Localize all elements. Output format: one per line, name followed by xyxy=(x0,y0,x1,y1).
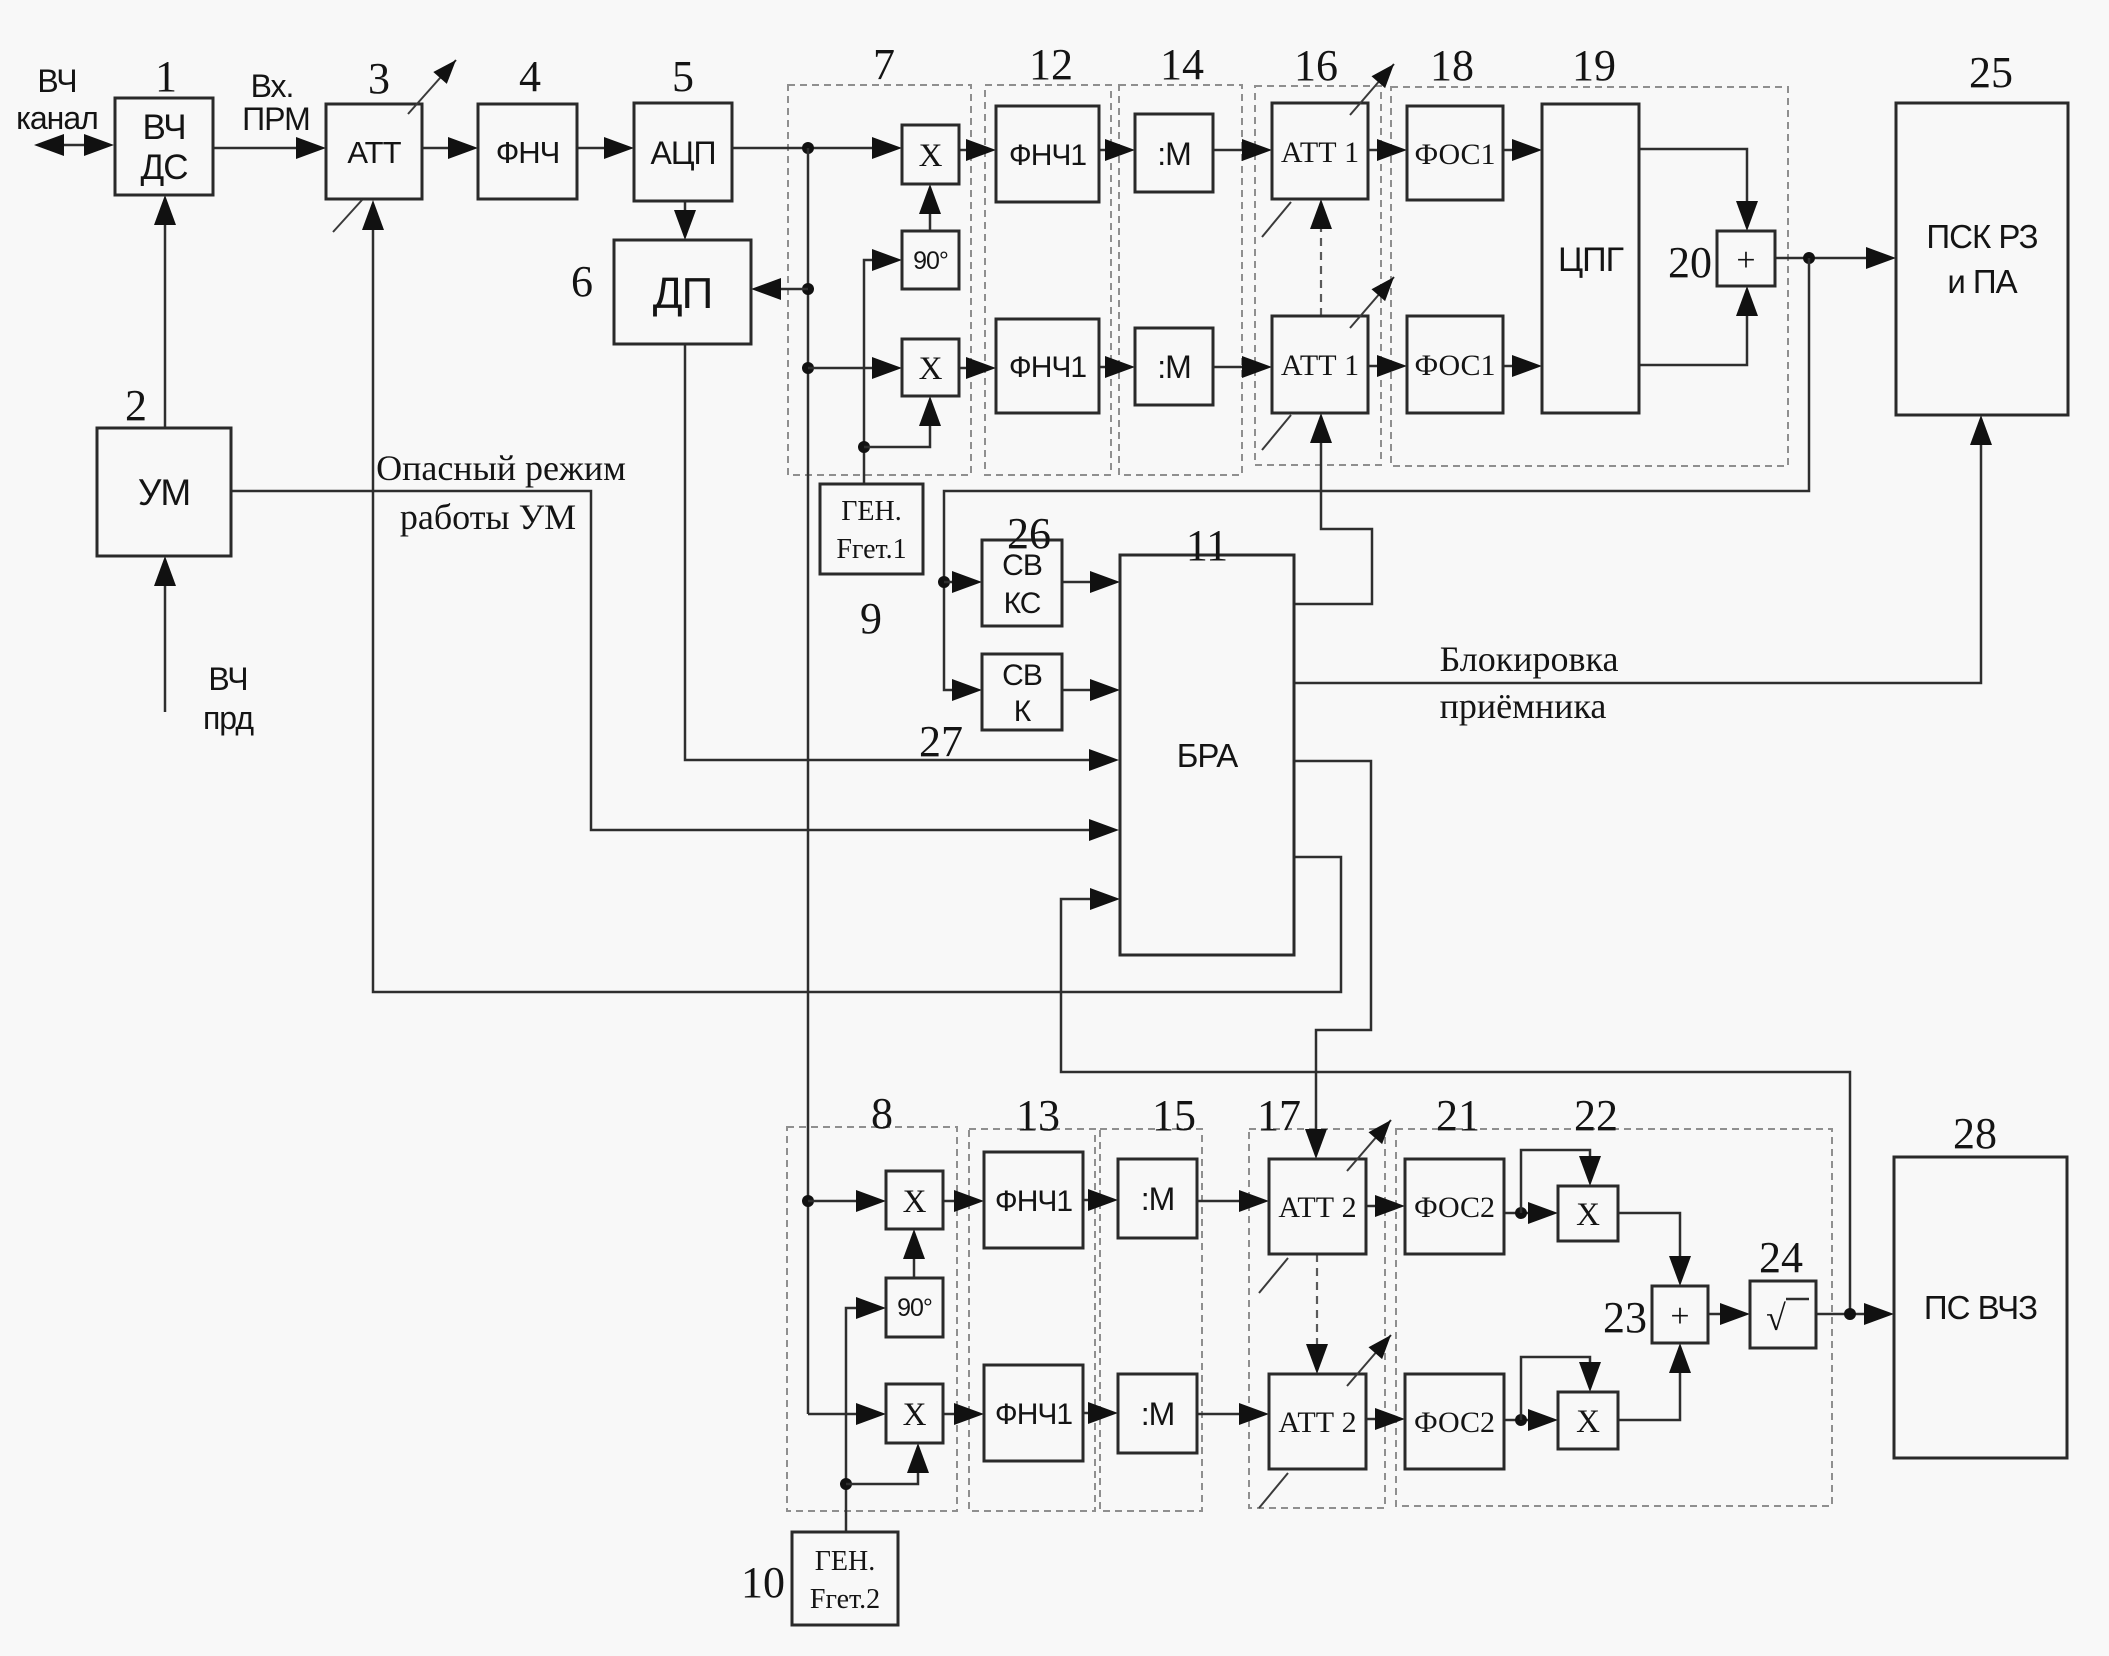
block 21a: FOS2 top xyxy=(1405,1159,1504,1254)
svg-text:11: 11 xyxy=(1186,521,1228,570)
block 13b: FNCh1 fourth row xyxy=(984,1365,1083,1461)
wire: SV KS to BRA xyxy=(1062,571,1120,593)
wire: FOS2 to X squarer (fourth row) xyxy=(1504,1409,1558,1431)
block 21b: FOS2 bottom xyxy=(1405,1374,1504,1469)
wire: adder 20 to PSK RZ i PA xyxy=(1775,247,1896,269)
block 15a: divider M third row xyxy=(1118,1159,1197,1238)
svg-text:8: 8 xyxy=(871,1089,893,1138)
block 10: GEN Fget.2 xyxy=(792,1532,898,1625)
svg-text:25: 25 xyxy=(1969,48,2013,97)
wire: dashed gang control between ATT1 boxes xyxy=(1310,199,1332,316)
svg-text:Вх.: Вх. xyxy=(251,68,294,104)
block 5: ATsP xyxy=(634,103,732,201)
svg-text:16: 16 xyxy=(1294,41,1338,90)
svg-text:ВЧ: ВЧ xyxy=(37,63,76,99)
svg-text:прд: прд xyxy=(203,700,254,736)
block 28: PS VChZ xyxy=(1894,1157,2067,1458)
svg-text:УМ: УМ xyxy=(138,472,190,513)
block 16b: ATT 1 bottom xyxy=(1272,316,1368,413)
svg-text:10: 10 xyxy=(741,1558,785,1607)
dashed frame 15 (decimator group 2) xyxy=(1100,1129,1202,1511)
wire: FOS2 to X squarer (third row) xyxy=(1504,1202,1558,1224)
svg-text:Опасный режим: Опасный режим xyxy=(376,448,626,488)
svg-text:22: 22 xyxy=(1574,1091,1618,1140)
wire: DP to BRA xyxy=(685,344,1119,771)
wire: sqrt 24 to PS VChZ xyxy=(1816,1303,1894,1325)
block 15b: divider M fourth row xyxy=(1118,1374,1197,1453)
wire: TsPG lower output to adder 20 xyxy=(1639,286,1758,365)
wire: branch to SV KS xyxy=(944,571,982,593)
svg-text::М: :М xyxy=(1141,1396,1175,1432)
junction: ATsP output node xyxy=(802,142,814,154)
wire: BRA blocking line to PSK RZ i PA (Blokirovka priyomnika) xyxy=(1294,415,1992,683)
wire: :M to ATT2 (third row) xyxy=(1197,1190,1269,1212)
svg-text:6: 6 xyxy=(571,257,593,306)
wire: :M to ATT2 (fourth row) xyxy=(1197,1403,1269,1425)
svg-text:ФОС2: ФОС2 xyxy=(1414,1191,1495,1224)
wire: UM to VCh DS xyxy=(154,195,176,428)
block 11: BRA xyxy=(1120,555,1294,955)
wire: BRA control to ATT1 pair (frame 16) xyxy=(1294,413,1372,604)
variable arrow of ATT 3 xyxy=(408,60,456,114)
block: 90deg shifter (frame 7) xyxy=(902,231,959,289)
junction: GEN2 branch node xyxy=(840,1478,852,1490)
junction: node to DP xyxy=(802,283,814,295)
block 22a: X squarer top xyxy=(1558,1186,1618,1241)
wire: ATT to FNCh xyxy=(422,137,478,159)
block 20: adder xyxy=(1717,231,1775,286)
dashed frame 8 (quadrature mixer group 2) xyxy=(787,1127,957,1511)
wire: I/Q signal bus vertical down to frame 8 xyxy=(808,148,886,1425)
wire: ATT1 to FOS1 (second row) xyxy=(1368,355,1407,377)
wire: X I to FNCh1 (third row) xyxy=(943,1190,984,1212)
block 22b: X squarer bottom xyxy=(1558,1392,1618,1449)
block 6: DP xyxy=(614,240,751,344)
block 24: sqrt xyxy=(1750,1281,1816,1348)
variable slash of ATT 1 bottom xyxy=(1262,415,1291,450)
wire: ATT2 to FOS2 (third row) xyxy=(1366,1195,1405,1217)
block 25: PSK RZ i PA xyxy=(1896,103,2068,415)
svg-text:ПС ВЧЗ: ПС ВЧЗ xyxy=(1924,1289,2037,1326)
wire: 90deg to X mixer I (frame 7) xyxy=(919,184,941,231)
svg-text:19: 19 xyxy=(1572,41,1616,90)
dashed frame 13 (LPF group 2) xyxy=(969,1129,1095,1511)
svg-text:Fгет.1: Fгет.1 xyxy=(836,534,906,565)
variable slash of ATT 1 top xyxy=(1262,202,1291,237)
svg-text:18: 18 xyxy=(1430,41,1474,90)
block 9: GEN Fget.1 xyxy=(820,484,923,574)
block 18b: FOS1 bottom xyxy=(1407,316,1503,413)
svg-text:27: 27 xyxy=(919,717,963,766)
wire: VCh prd input to UM xyxy=(154,556,176,712)
junction: GEN1 branch node xyxy=(858,441,870,453)
svg-text:20: 20 xyxy=(1668,238,1712,287)
junction: SV KS branch node xyxy=(938,576,950,588)
svg-text:ПРМ: ПРМ xyxy=(242,101,310,137)
wire: FNCh1 to :M (second row) xyxy=(1099,356,1135,378)
wire: GEN Fget.2 to 90deg shifter (frame 8) xyxy=(846,1297,886,1532)
svg-text:Х: Х xyxy=(1576,1197,1600,1233)
svg-text:ДС: ДС xyxy=(141,148,188,187)
svg-text:√: √ xyxy=(1766,1298,1786,1338)
block 18a: FOS1 top xyxy=(1407,106,1503,200)
svg-text:23: 23 xyxy=(1603,1293,1647,1342)
dashed frame 7 (quadrature mixer group) xyxy=(788,85,971,475)
variable slash of ATT 3 xyxy=(333,200,362,232)
block: X mixer I (frame 7) xyxy=(902,125,959,184)
svg-text:3: 3 xyxy=(368,54,390,103)
svg-text:СВ: СВ xyxy=(1002,659,1042,692)
variable arrow of ATT 2 bottom xyxy=(1347,1335,1391,1386)
block 3: ATT xyxy=(326,104,422,199)
wire: VCh kanal bidirectional arrow xyxy=(34,134,114,156)
svg-text:Х: Х xyxy=(903,1397,927,1433)
svg-text:БРА: БРА xyxy=(1177,737,1238,774)
wire: node to X mixer I input (frame 8) xyxy=(808,1190,886,1212)
wire: adder 20 output down to SV comparators xyxy=(944,258,1809,701)
svg-text:15: 15 xyxy=(1152,1091,1196,1140)
svg-text::М: :М xyxy=(1141,1181,1175,1217)
wire: FNCh1 to :M (top row) xyxy=(1099,139,1135,161)
block 1: VCh DS xyxy=(115,98,213,195)
svg-text:9: 9 xyxy=(860,594,882,643)
block 14b: divider M bottom xyxy=(1135,328,1213,405)
variable arrow of ATT 2 top xyxy=(1347,1120,1391,1171)
variable slash of ATT 2 bottom xyxy=(1259,1473,1288,1508)
wire: :M to ATT1 (top row) xyxy=(1213,139,1272,161)
wire: block1 to ATT (Vkh PRM) xyxy=(213,137,326,159)
block 17a: ATT 2 top xyxy=(1269,1159,1366,1254)
wire: FOS1 to TsPG (second row) xyxy=(1503,355,1542,377)
svg-text:АТТ 1: АТТ 1 xyxy=(1281,349,1359,382)
svg-text:ФНЧ: ФНЧ xyxy=(496,135,560,170)
svg-text:АТТ: АТТ xyxy=(347,135,401,170)
block 16a: ATT 1 top xyxy=(1272,103,1368,199)
block 17b: ATT 2 bottom xyxy=(1269,1374,1366,1469)
svg-text:4: 4 xyxy=(519,52,541,101)
svg-text:12: 12 xyxy=(1029,40,1073,89)
wire: FNCh to ATsP xyxy=(577,137,634,159)
svg-text::М: :М xyxy=(1157,136,1191,172)
wire: ATsP to X mixer I (top, frame 7) xyxy=(732,137,902,159)
svg-text:90°: 90° xyxy=(913,247,948,275)
wire: :M to ATT1 (second row) xyxy=(1213,356,1272,378)
svg-text:+: + xyxy=(1670,1298,1689,1335)
block 14a: divider M top xyxy=(1135,114,1213,192)
block 27: SV K xyxy=(982,654,1062,730)
block 12b: FNCh1 bottom xyxy=(996,319,1099,413)
variable arrow of ATT 1 top xyxy=(1350,64,1394,115)
svg-text:ФОС1: ФОС1 xyxy=(1414,349,1495,382)
svg-text:работы УМ: работы УМ xyxy=(400,497,576,537)
svg-text:Блокировка: Блокировка xyxy=(1440,639,1619,679)
block: X mixer I (frame 8) xyxy=(886,1171,943,1229)
svg-text:ДП: ДП xyxy=(653,269,712,318)
wire: UM dangerous-mode line to BRA xyxy=(231,491,1119,841)
wire: X I to FNCh1 (fourth row) xyxy=(943,1403,984,1425)
svg-text:Х: Х xyxy=(1576,1404,1600,1440)
dashed frame 17 (ATT2 group) xyxy=(1249,1129,1385,1508)
wire: ATsP to DP xyxy=(674,201,696,240)
wire: TsPG upper output to adder 20 xyxy=(1639,149,1758,231)
wire: X squarer top to adder 23 xyxy=(1618,1213,1691,1286)
svg-text:приёмника: приёмника xyxy=(1440,686,1607,726)
wire: squarer loop top (third row) xyxy=(1521,1150,1601,1213)
svg-text:26: 26 xyxy=(1007,509,1051,558)
svg-text:ВЧ: ВЧ xyxy=(142,108,185,147)
dashed frame 18/19 (FOS1 + TsPG group) xyxy=(1391,87,1788,466)
wire: ATT1 to FOS1 (top row) xyxy=(1368,139,1407,161)
svg-text:АЦП: АЦП xyxy=(650,135,715,171)
svg-text:ГЕН.: ГЕН. xyxy=(815,1546,876,1577)
block: X mixer Q (frame 8) xyxy=(886,1384,943,1443)
block 19: TsPG xyxy=(1542,104,1639,413)
wire: adder 23 to sqrt 24 xyxy=(1708,1303,1750,1325)
svg-text:28: 28 xyxy=(1953,1109,1997,1158)
wire: FOS1 to TsPG (top row) xyxy=(1503,139,1542,161)
dashed frame 12 (LPF group) xyxy=(985,85,1111,475)
svg-text:ГЕН.: ГЕН. xyxy=(841,496,902,527)
junction: node to X mixer Q (frame 7) xyxy=(802,362,814,374)
svg-text:1: 1 xyxy=(155,52,177,101)
variable arrow of ATT 1 bottom xyxy=(1350,277,1394,328)
svg-text:+: + xyxy=(1736,242,1755,279)
svg-text:13: 13 xyxy=(1016,1091,1060,1140)
svg-text:Х: Х xyxy=(903,1184,927,1220)
block 2: UM xyxy=(97,428,231,556)
svg-text:ФНЧ1: ФНЧ1 xyxy=(1009,139,1086,172)
svg-text:и ПА: и ПА xyxy=(1947,263,2017,300)
junction: FOS2 top output node xyxy=(1515,1207,1527,1219)
wire: FNCh1 to :M (fourth row) xyxy=(1083,1402,1118,1424)
svg-text:ФНЧ1: ФНЧ1 xyxy=(995,1398,1072,1431)
svg-text:24: 24 xyxy=(1759,1233,1803,1282)
svg-text:АТТ 2: АТТ 2 xyxy=(1278,1191,1356,1224)
wire: GEN Fget.1 to 90deg shifter xyxy=(864,249,902,484)
wire: FNCh1 to :M (third row) xyxy=(1083,1189,1118,1211)
svg-text:5: 5 xyxy=(672,52,694,101)
wire: BRA gain control to ATT (block 3) xyxy=(362,200,1341,992)
svg-text:ФОС1: ФОС1 xyxy=(1414,138,1495,171)
block 4: FNCh xyxy=(478,104,577,199)
svg-text::М: :М xyxy=(1157,349,1191,385)
wire: GEN1 branch to X mixer Q (frame 7) xyxy=(864,396,941,447)
block 13a: FNCh1 third row xyxy=(984,1152,1083,1248)
block: 90deg shifter (frame 8) xyxy=(886,1278,943,1337)
wire: node to DP input xyxy=(751,278,808,300)
svg-text:2: 2 xyxy=(125,381,147,430)
wire: GEN2 branch to X mixer Q (frame 8) xyxy=(846,1443,929,1484)
junction: FOS2 bottom output node xyxy=(1515,1414,1527,1426)
svg-text:ЦПГ: ЦПГ xyxy=(1558,241,1624,279)
wire: envelope feedback from sqrt output to BRA xyxy=(1061,888,1850,1314)
wire: squarer loop top (fourth row) xyxy=(1521,1357,1601,1420)
block: X mixer Q (frame 7) xyxy=(902,339,959,396)
svg-text:ФОС2: ФОС2 xyxy=(1414,1406,1495,1439)
wire: BRA control to ATT2 pair (frame 17) xyxy=(1294,761,1371,1159)
wire: SV K to BRA xyxy=(1062,679,1120,701)
dashed frame 16 (ATT1 group) xyxy=(1255,86,1381,465)
svg-text:ФНЧ1: ФНЧ1 xyxy=(995,1185,1072,1218)
svg-text:Х: Х xyxy=(919,351,943,387)
svg-text:КС: КС xyxy=(1004,587,1041,620)
svg-text:90°: 90° xyxy=(897,1294,932,1322)
svg-text:ПСК РЗ: ПСК РЗ xyxy=(1926,218,2037,255)
block 26: SV KS xyxy=(982,540,1062,626)
block 12a: FNCh1 top xyxy=(996,106,1099,202)
wire: node to X mixer Q input (frame 7) xyxy=(808,357,902,379)
svg-text:ВЧ: ВЧ xyxy=(208,661,247,697)
svg-text:АТТ 1: АТТ 1 xyxy=(1281,136,1359,169)
wire: dashed gang control between ATT2 boxes xyxy=(1306,1254,1328,1374)
junction: node to X mixer I (frame 8) xyxy=(802,1195,814,1207)
svg-text:17: 17 xyxy=(1257,1091,1301,1140)
block 23: adder xyxy=(1652,1286,1708,1343)
wire: X I to FNCh1 (top row) xyxy=(959,139,996,161)
wire: 90deg to X mixer I (frame 8) xyxy=(903,1229,925,1278)
svg-text:АТТ 2: АТТ 2 xyxy=(1278,1406,1356,1439)
wire: ATT2 to FOS2 (fourth row) xyxy=(1366,1408,1405,1430)
wire: X squarer bottom to adder 23 xyxy=(1618,1343,1691,1420)
svg-text:К: К xyxy=(1014,695,1032,728)
junction: adder 20 output node xyxy=(1803,252,1815,264)
svg-text:ФНЧ1: ФНЧ1 xyxy=(1009,351,1086,384)
variable slash of ATT 2 top xyxy=(1259,1258,1288,1293)
svg-text:канал: канал xyxy=(16,100,98,136)
dashed frame 14 (decimator group) xyxy=(1119,85,1242,475)
svg-text:7: 7 xyxy=(873,40,895,89)
svg-text:21: 21 xyxy=(1436,1091,1480,1140)
svg-text:Fгет.2: Fгет.2 xyxy=(810,1584,880,1615)
svg-text:Х: Х xyxy=(919,138,943,174)
wire: X Q to FNCh1 (second row) xyxy=(959,357,996,379)
svg-text:14: 14 xyxy=(1160,40,1204,89)
junction: sqrt output node xyxy=(1844,1308,1856,1320)
dashed frame 21/22 (FOS2 + squarer group) xyxy=(1396,1129,1832,1506)
